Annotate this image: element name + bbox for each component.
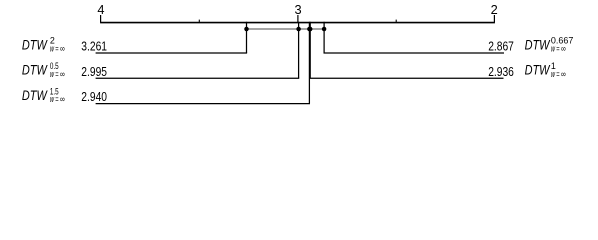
svg-text:∞: ∞ (561, 69, 566, 79)
svg-text:2.936: 2.936 (488, 64, 514, 79)
label DTW^0.667_w=inf (525, 36, 574, 54)
svg-text:DTW: DTW (525, 63, 551, 78)
svg-text:2.940: 2.940 (81, 89, 107, 104)
svg-text:w: w (50, 44, 54, 54)
minor tick 2.5 (395, 20, 397, 23)
dot 2.936 (308, 27, 313, 32)
svg-text:3: 3 (295, 2, 302, 17)
tick 3 (297, 15, 299, 23)
row line left 3 (2.940) (96, 103, 310, 105)
svg-text:DTW: DTW (525, 37, 551, 52)
critical difference diagram (0, 0, 598, 112)
svg-text:4: 4 (97, 2, 104, 17)
clique line (247, 28, 325, 30)
stem DTW^1 (2.936) (309, 22, 311, 79)
dot 3.261 (244, 27, 249, 32)
svg-text:=: = (556, 69, 559, 79)
label DTW^0.5_w=inf (22, 61, 65, 79)
row line left 1 (3.261) (96, 52, 248, 54)
svg-text:∞: ∞ (561, 44, 566, 54)
stem DTW^0.667 (2.867) (323, 22, 325, 53)
svg-text:∞: ∞ (60, 94, 65, 104)
stem DTW^1.5 (2.940) (308, 22, 310, 104)
svg-text:w: w (50, 69, 54, 79)
axis line (100, 22, 495, 24)
svg-text:2.867: 2.867 (488, 39, 514, 54)
dot 2.995 (296, 27, 301, 32)
label DTW^1.5_w=inf (22, 86, 65, 104)
svg-text:=: = (55, 94, 58, 104)
svg-text:=: = (556, 44, 559, 54)
svg-text:2: 2 (491, 2, 498, 17)
row line right 2 (2.936) (310, 77, 504, 79)
svg-text:=: = (55, 44, 58, 54)
svg-text:2.995: 2.995 (81, 64, 107, 79)
row line right 1 (2.867) (324, 52, 505, 54)
svg-text:∞: ∞ (60, 69, 65, 79)
stem DTW^0.5 (2.995) (298, 22, 300, 79)
label DTW^2_w=inf (22, 36, 65, 54)
dot 2.867 (322, 27, 327, 32)
dot 2.940 (307, 27, 312, 32)
label DTW^1_w=inf (525, 61, 566, 79)
svg-text:w: w (551, 44, 555, 54)
tick 2 (493, 15, 495, 23)
svg-text:w: w (551, 69, 555, 79)
svg-text:DTW: DTW (22, 63, 48, 78)
stem DTW^2 (3.261) (246, 22, 248, 53)
svg-text:DTW: DTW (22, 37, 48, 52)
svg-text:∞: ∞ (60, 44, 65, 54)
svg-text:w: w (50, 94, 54, 104)
minor tick 3.5 (198, 20, 200, 23)
svg-text:=: = (55, 69, 58, 79)
row line left 2 (2.995) (96, 77, 300, 79)
svg-text:3.261: 3.261 (81, 39, 107, 54)
svg-text:DTW: DTW (22, 88, 48, 103)
tick 4 (100, 15, 102, 23)
